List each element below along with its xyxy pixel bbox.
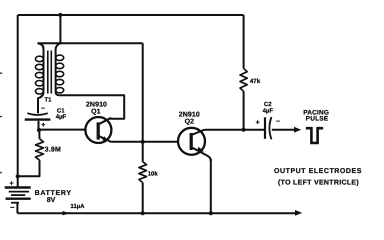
- battery plate 3: [11, 194, 25, 196]
- svg-text:+: +: [41, 122, 45, 129]
- svg-text:OUTPUT ELECTRODES: OUTPUT ELECTRODES: [274, 168, 362, 175]
- svg-text:+: +: [9, 180, 13, 187]
- resistor R3 10k: [139, 162, 147, 183]
- capacitor C2: [265, 117, 272, 139]
- wire Q1 base: [39, 129, 85, 131]
- svg-text:4µF: 4µF: [263, 107, 274, 114]
- node emitter junction: [141, 140, 145, 144]
- T1 left winding lead bottom: [38, 92, 44, 114]
- svg-text:2N910: 2N910: [179, 111, 200, 118]
- wire top rail: [18, 14, 244, 16]
- output arrow top: [294, 127, 301, 133]
- wire transformer top horizontal: [38, 42, 143, 44]
- Q1 emitter lead: [100, 136, 112, 142]
- transformer T1: [35, 43, 63, 113]
- transistor Q1: [85, 117, 111, 143]
- wire emitter node horizontal (Q1 emitter to Q2 base): [111, 141, 178, 143]
- Q2 circle: [178, 128, 205, 155]
- svg-text:Q2: Q2: [185, 118, 194, 125]
- svg-text:(TO LEFT VENTRICLE): (TO LEFT VENTRICLE): [278, 178, 359, 186]
- scan specks left edge: [0, 72, 2, 74]
- svg-text:Q1: Q1: [91, 109, 100, 116]
- wire Q2 collector horizontal: [205, 129, 265, 131]
- output arrow bottom: [295, 210, 302, 216]
- battery plate long 4: [6, 197, 31, 199]
- current arrow on bottom rail: [63, 211, 70, 215]
- svg-text:2N910: 2N910: [86, 102, 107, 109]
- svg-text:PULSE: PULSE: [306, 116, 329, 123]
- wire vertical x142.7 down to emitter node: [142, 43, 144, 142]
- wire 47k top lead: [243, 15, 245, 69]
- wire vertical to transformer top: [59, 15, 61, 43]
- wire C2 output: [272, 129, 295, 131]
- T1 right winding lead bottom: [56, 92, 60, 96]
- node 47k bottom junction: [242, 128, 246, 132]
- battery plate 5: [11, 202, 19, 204]
- C2 curved plate: [269, 117, 271, 139]
- C1 straight plate: [25, 118, 51, 120]
- node left rail junction: [16, 174, 20, 178]
- svg-text:C2: C2: [264, 101, 272, 108]
- capacitor C1: [25, 113, 51, 130]
- Q2 base bar: [190, 133, 193, 150]
- wire bottom rail: [17, 212, 296, 214]
- C2 straight plate: [264, 117, 266, 139]
- node top junction: [58, 13, 62, 17]
- T1 core lines: [47, 51, 49, 94]
- wire Q2 emitter down: [210, 159, 212, 213]
- resistor R2 47k: [240, 69, 247, 92]
- Q1 circle: [85, 117, 111, 143]
- battery plate long 1: [5, 186, 31, 188]
- C1 curved plate: [27, 113, 48, 115]
- wire 10k top lead: [142, 142, 144, 162]
- Q2 emitter lead: [193, 148, 211, 161]
- svg-text:47k: 47k: [250, 78, 261, 85]
- Q1 emitter arrowhead: [102, 136, 109, 141]
- T1 left winding loops: [35, 56, 43, 94]
- svg-text:3.9M: 3.9M: [45, 146, 61, 153]
- T1 left winding lead top: [38, 43, 44, 92]
- battery bottom lead: [16, 204, 18, 214]
- wire 3.9M top lead: [38, 130, 40, 139]
- svg-text:8V: 8V: [47, 197, 56, 204]
- battery plate 2: [9, 191, 29, 193]
- Q1 base bar: [97, 122, 100, 139]
- svg-text:–: –: [10, 202, 15, 211]
- wire Q1 collector loop (transformer to Q1): [59, 95, 124, 118]
- wire 3.9M bottom lead: [18, 160, 40, 176]
- svg-text:BATTERY: BATTERY: [35, 190, 72, 197]
- pacing pulse waveform symbol: [306, 128, 323, 143]
- svg-text:–: –: [276, 118, 280, 125]
- node Q2 emitter bottom junction: [209, 211, 213, 215]
- resistor R1 3.9M: [36, 139, 44, 160]
- svg-text:10k: 10k: [148, 171, 159, 178]
- Q1 collector lead: [100, 118, 111, 124]
- svg-text:4µF: 4µF: [56, 114, 67, 121]
- T1 right winding loops: [56, 55, 64, 93]
- battery B1: [5, 188, 31, 214]
- svg-text:C1: C1: [57, 108, 65, 115]
- Q2 emitter arrowhead: [197, 147, 204, 152]
- T1 right winding lead top: [56, 43, 61, 92]
- Q2 collector lead: [193, 130, 205, 135]
- svg-text:–: –: [41, 105, 45, 112]
- wire left rail: [17, 15, 19, 187]
- node C1 bottom junction: [37, 128, 41, 132]
- svg-text:11µA: 11µA: [70, 203, 85, 210]
- svg-text:+: +: [256, 119, 260, 126]
- node 10k bottom junction: [141, 211, 145, 215]
- transistor Q2: [178, 128, 211, 161]
- wire 10k bottom lead: [142, 183, 144, 214]
- C1 lead bottom: [38, 121, 40, 130]
- wire 47k bottom lead: [243, 91, 245, 130]
- svg-text:T1: T1: [44, 97, 52, 104]
